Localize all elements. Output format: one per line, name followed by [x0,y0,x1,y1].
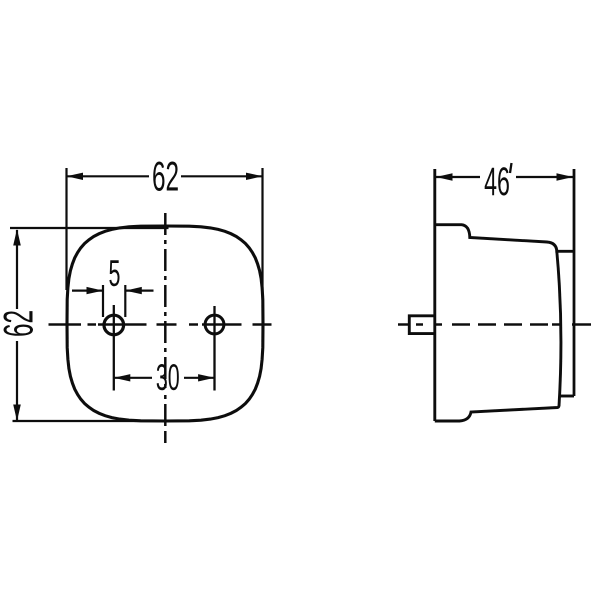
arrow 30 right [198,374,215,381]
svg-text:62: 62 [0,310,42,337]
arrow 5 left pointing right [87,287,104,294]
connector plug [409,316,435,334]
hole left vertical centerline tick [113,305,115,391]
arrow up height62 [13,229,21,246]
extension line top of body [10,227,169,229]
mounting hole left [104,315,124,335]
extension line width62 right [261,168,263,300]
mounting hole right [205,315,224,334]
arrow 5 right pointing left [125,287,142,294]
svg-text:62: 62 [152,154,179,200]
horizontal centerline front view [49,323,272,326]
arrow left width62 [67,173,84,180]
side view back face edge [573,169,576,396]
arrow 30 left [114,374,131,381]
arrow 46 right [557,173,574,180]
side view bottom profile [435,406,559,422]
arrow right width62 [246,173,263,180]
dimension line 30 [114,377,215,379]
dimension line width 62 [67,175,263,177]
side view horizontal centerline [398,323,591,326]
dimension line 5 left tail [72,290,103,292]
svg-text:46: 46 [484,158,510,203]
arrow down height62 [13,405,21,422]
extension line hole5 right [124,285,126,317]
arrow 46 left [436,173,453,180]
dimension line height 62 [16,230,18,420]
extension line bottom of body [13,420,169,422]
apostrophe artifact after 46 [510,163,512,173]
side view front face edge [433,169,436,421]
svg-text:5: 5 [109,254,121,294]
extension line width62 left [65,168,67,290]
dimension line 46 [436,176,573,178]
extension line hole5 left [102,285,104,317]
side view back plate bottom edge [560,395,574,398]
svg-text:30: 30 [156,358,180,398]
lamp front view outline [67,226,263,421]
side view top profile [435,225,574,252]
side view lens back arc [557,251,561,406]
vertical centerline front view [164,213,167,443]
hole right vertical centerline tick [213,306,215,391]
dimension line 5 right tail [125,290,153,292]
